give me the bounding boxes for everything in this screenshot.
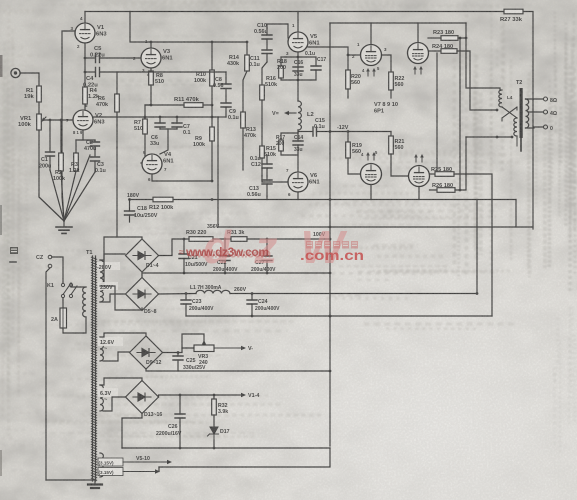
resistor R10 — [211, 42, 213, 70]
capacitor C23 — [185, 294, 187, 301]
wire CZ to bottom run — [46, 268, 50, 480]
wire 230V to D5-8 — [100, 286, 142, 310]
wire T2 tap 0 — [526, 127, 544, 128]
wire D9-12 bottom rail — [146, 369, 330, 371]
pentode V7d — [409, 166, 430, 187]
wire R31 to 100V node — [247, 238, 330, 240]
wire R6 B+ drop — [116, 72, 118, 237]
capacitor C7 — [176, 117, 178, 123]
wire V7d plate to rail — [418, 187, 420, 200]
capacitor C25 — [177, 353, 179, 357]
wire 6.3V to D13-16 — [100, 378, 142, 385]
wire R11 left leg — [145, 105, 151, 117]
resistor R15 — [260, 146, 265, 158]
wire R14 drop — [246, 42, 248, 55]
wire T2 tap 4ohm — [528, 111, 543, 113]
wire hangers C1 R2 — [49, 119, 52, 122]
wire R22 bottom — [390, 90, 392, 98]
capacitor C17 — [298, 57, 316, 66]
wire R9 to V4 anode line — [211, 141, 213, 181]
wire input to R1 — [20, 73, 39, 86]
wire -12V to R19 R21 — [347, 132, 349, 143]
wire VR1 down to ground fan — [39, 130, 64, 221]
wire R4 to V2 — [84, 104, 86, 110]
watermark chinese — [306, 241, 313, 249]
transformer T1 core — [93, 256, 96, 481]
wire C13 to rail — [266, 196, 268, 200]
wire top B+ rail — [85, 11, 504, 13]
wire 180V rail — [130, 199, 516, 201]
wire PSU heater vertical — [329, 23, 331, 446]
pentode V7a — [361, 45, 382, 66]
triode V6 — [288, 172, 308, 192]
wire 12.6V to D9-12 — [100, 333, 146, 337]
ground — [56, 227, 72, 233]
wire V7b plate — [417, 23, 419, 43]
wire VR3 wiper loop — [182, 334, 204, 348]
wire D5-8 out to L1 line — [159, 293, 197, 296]
wire output plate rail — [330, 22, 466, 24]
resistor R2 — [59, 153, 64, 171]
resistor R11 — [184, 103, 203, 108]
wire bottom rail 448 — [122, 447, 330, 449]
wire C9 bottom to plate line — [218, 116, 226, 118]
wire L1 out 260V — [230, 293, 477, 295]
resistor R12 — [153, 197, 173, 202]
wire R10 to R9 — [211, 86, 213, 127]
bridge rectifier D5-8 — [126, 278, 159, 311]
wire VR1 wiper to V2 grid — [43, 119, 73, 121]
resistor R16 — [260, 85, 265, 100]
triode V2 — [73, 110, 93, 130]
transformer T2 crossover — [502, 107, 517, 118]
capacitor C10 — [266, 28, 268, 35]
capacitor C14 — [297, 133, 299, 141]
wire bottom run to core — [46, 479, 95, 481]
resistor R30 — [189, 237, 213, 242]
wire V1 cathode chain to R4 — [84, 43, 86, 87]
bridge rectifier D9-12 — [130, 336, 163, 369]
wire 280V to D1-4 AC top — [100, 237, 142, 260]
wire -12V line — [330, 131, 391, 133]
wire V= arrow — [288, 112, 296, 114]
label figure number — [10, 247, 18, 254]
wire V5 cathode chain — [297, 52, 299, 101]
wire R14 to R13 column — [243, 71, 247, 112]
wire CZ to switch — [52, 257, 63, 283]
wire 356V drop — [217, 117, 219, 227]
transformer T1 primary — [83, 287, 86, 317]
resistor R13 — [241, 112, 246, 128]
transformer T1 3.15V windings — [100, 453, 103, 477]
zener diode D17 — [213, 415, 215, 426]
wire V7c plate to rail — [370, 185, 372, 200]
wire C10 top to V5 grid — [267, 24, 288, 38]
wire C11 to R16 — [262, 62, 267, 85]
resistor R3 — [74, 153, 79, 171]
wire V3 cathode to R8 — [150, 68, 152, 71]
heater arrows V7d — [415, 156, 417, 162]
wire R1 to VR1 — [38, 102, 40, 114]
wire V6 grid from network — [262, 176, 288, 182]
triode V5 — [288, 32, 308, 52]
resistor R32 — [213, 395, 215, 399]
potentiometer VR3 — [194, 345, 214, 352]
paper edge marks — [0, 55, 3, 77]
capacitor C3 — [91, 157, 100, 161]
wire D9-12 out to VR3 — [163, 348, 195, 353]
wire V1 grid feedback — [62, 31, 75, 221]
resistor R18 — [281, 57, 298, 66]
transformer T1 280V winding — [100, 260, 103, 284]
wire R26 to T2 lower winding — [455, 137, 466, 190]
capacitor C4 — [85, 71, 95, 73]
capacitor C2 — [91, 142, 100, 146]
capacitor C13 — [266, 176, 268, 180]
wire D1-4 DC out — [159, 239, 185, 256]
resistor R23 — [428, 37, 441, 39]
transformer T2 core — [520, 88, 523, 138]
potentiometer VR1 — [37, 114, 42, 130]
wire V4 bottom to R9 leg — [152, 174, 212, 181]
wire heater arrow 2 — [123, 471, 156, 473]
wire R25 right long drop — [454, 174, 492, 316]
inductor L2 — [298, 101, 301, 130]
wire 356V B+ line — [218, 226, 533, 228]
wire R23 right — [458, 37, 466, 39]
resistor R26 — [430, 189, 438, 191]
capacitor C27 — [266, 239, 268, 256]
wire rail 356V-239 — [184, 238, 189, 240]
wire VR3 out V- — [214, 347, 242, 349]
resistor R7 — [144, 117, 146, 119]
ground fan wires — [50, 170, 64, 221]
bridge rectifier D13-16 — [126, 381, 159, 414]
wire R16 to R15 — [261, 100, 263, 146]
wire T2 primary top feed — [466, 23, 500, 90]
input jack J1 — [11, 68, 20, 77]
pentode V7b — [408, 43, 429, 64]
wire 280V AC bottom — [100, 254, 125, 284]
capacitor C22 — [224, 239, 226, 256]
wire T2 lower tap — [466, 136, 512, 138]
wire screen tap vertical A — [436, 53, 438, 174]
wire R24 right to T2 upper tap — [457, 51, 497, 110]
wire top rail to feedback drop — [523, 12, 533, 230]
resistor R6 — [115, 94, 120, 112]
capacitor C11 — [266, 39, 268, 50]
resistor R14 — [245, 55, 250, 71]
capacitor C1 — [46, 152, 55, 156]
resistor R1 — [37, 86, 42, 102]
wire T2 tap 8ohm — [526, 98, 544, 100]
wire R21 to V7d grid — [391, 154, 409, 176]
transformer T2 primary upper — [499, 90, 502, 107]
wire R7 to V4 grid — [141, 134, 145, 163]
heater arrows V7a — [367, 70, 369, 76]
wire heater arrow 1 — [123, 461, 168, 463]
wire cathode RC network — [76, 139, 95, 141]
capacitor C12 — [266, 155, 268, 164]
wire C6 C7 bottoms to V4 — [160, 128, 177, 130]
resistor R20 — [346, 70, 351, 89]
transformer T2 primary lower — [514, 118, 517, 136]
transformer T1 6.3V winding — [100, 385, 103, 411]
bridge rectifier D1-4 — [126, 239, 159, 272]
wire 516 drop — [515, 200, 517, 228]
wire V2 plate line to network — [93, 116, 218, 118]
wire fan apex — [63, 221, 65, 226]
triode V3 — [141, 48, 161, 68]
wire cathode bias line — [297, 130, 299, 133]
capacitor C21 — [183, 239, 185, 254]
resistor R31 — [213, 238, 231, 240]
resistor R8 — [149, 71, 154, 85]
wire V2 cathode down — [82, 130, 84, 140]
wire plate line y42 — [130, 12, 247, 43]
transformer T1 12.6V winding — [100, 337, 103, 361]
heater arrows V7b — [414, 68, 416, 74]
wire V3 plate stub — [150, 42, 152, 48]
wire V7a plate — [370, 23, 372, 45]
capacitor C8 — [225, 72, 227, 84]
wire V7a to R22 — [382, 55, 392, 72]
wire D5-8 top to rail2 — [141, 273, 143, 278]
wire R8 down to R11 node — [150, 85, 152, 105]
wire R20 grid tap — [348, 54, 361, 56]
wire heater return 467 — [159, 448, 330, 467]
wire V6 plate to rail — [297, 192, 299, 200]
ground T1 — [94, 480, 96, 484]
capacitor C16 — [293, 67, 303, 71]
capacitor C15 — [313, 127, 317, 136]
capacitor C5 — [85, 57, 95, 59]
triode V1 — [75, 23, 95, 43]
wire R20 bottom — [347, 89, 349, 98]
wire rail2 360V — [142, 272, 330, 274]
label 3.15V boxes — [98, 458, 123, 466]
pentode V7c — [361, 164, 382, 185]
transformer T2 secondary — [526, 99, 529, 128]
wire R19 to V7c grid — [348, 158, 361, 174]
wire primary top — [71, 283, 86, 287]
wire screen tap vertical B — [459, 38, 461, 190]
wire D13-16 bottom to rail — [122, 413, 142, 448]
resistor R22 — [389, 72, 394, 90]
capacitor C18 — [129, 200, 131, 212]
triode V4 — [142, 154, 162, 174]
resistor R27 — [504, 9, 523, 14]
capacitor C26 — [179, 395, 181, 414]
wire mid return 316 — [186, 315, 492, 317]
wire V5 plate to rail — [297, 12, 299, 33]
resistor R21 — [389, 136, 394, 154]
capacitor C24 — [251, 294, 253, 301]
fuse 2A — [62, 298, 64, 308]
heater arrows V7c — [367, 154, 369, 160]
resistor R4 — [83, 87, 88, 104]
wire D13-16 out V1-4 line — [159, 395, 241, 397]
wire V5 to R20 — [308, 47, 348, 70]
wire V1 plate to rail — [84, 12, 86, 24]
wire R15 down — [261, 158, 263, 176]
inductor L1 — [196, 290, 230, 293]
resistor R19 — [346, 142, 351, 158]
wire fuse to primary — [63, 317, 86, 333]
wire T2 primary bottom — [516, 136, 518, 146]
wire 477 drop up — [476, 200, 478, 294]
wire C8 top — [117, 71, 226, 73]
capacitor C9 — [225, 89, 227, 104]
wire R13 down — [242, 128, 244, 170]
resistor R9 — [210, 127, 215, 141]
capacitor C6 — [159, 117, 161, 123]
resistor R24 — [429, 50, 441, 52]
transformer T1 230V winding — [100, 286, 103, 302]
resistor R25 — [430, 173, 436, 175]
resistor R17 — [281, 133, 298, 140]
